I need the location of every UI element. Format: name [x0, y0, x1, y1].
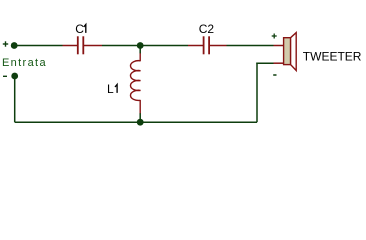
- wire top rail: C1 to C2 through node: [102, 45, 188, 47]
- wire: inductor top green stub: [139, 46, 141, 54]
- wire: right vertical drop: [256, 63, 258, 123]
- speaker LS1 driver body: [284, 38, 291, 65]
- label L1: [107, 82, 117, 96]
- node junction dot top of L1: [137, 42, 144, 49]
- wire top rail: + input to C1: [14, 45, 63, 47]
- svg-text:C: C: [75, 22, 84, 36]
- wire: bottom rail: [15, 121, 257, 123]
- node input minus terminal dot: [11, 73, 18, 80]
- svg-text:Entrata: Entrata: [2, 57, 47, 69]
- wire top rail: C2 to tweeter lead: [227, 45, 274, 47]
- capacitor C2: [188, 36, 227, 54]
- wire: left vertical from minus terminal: [14, 76, 16, 122]
- label tweeter plus sign: [272, 34, 277, 39]
- wire: tweeter minus lead horizontal green part: [256, 62, 273, 64]
- label input minus sign: [3, 75, 7, 77]
- label C1: [75, 22, 86, 36]
- wire: inductor bottom green stub: [139, 113, 141, 122]
- speaker LS1 horn cone: [291, 33, 297, 71]
- tweeter minus lead (maroon): [274, 62, 284, 64]
- node junction dot bottom of L1: [137, 119, 144, 126]
- tweeter plus lead (maroon): [274, 45, 284, 47]
- svg-text:C2: C2: [199, 22, 215, 36]
- inductor L1: [130, 53, 140, 113]
- label input plus sign: [3, 41, 8, 46]
- svg-text:L: L: [107, 82, 114, 96]
- capacitor C1: [63, 36, 103, 54]
- node input plus terminal dot: [11, 42, 18, 49]
- label tweeter minus sign: [273, 74, 276, 76]
- svg-text:TWEETER: TWEETER: [303, 50, 362, 64]
